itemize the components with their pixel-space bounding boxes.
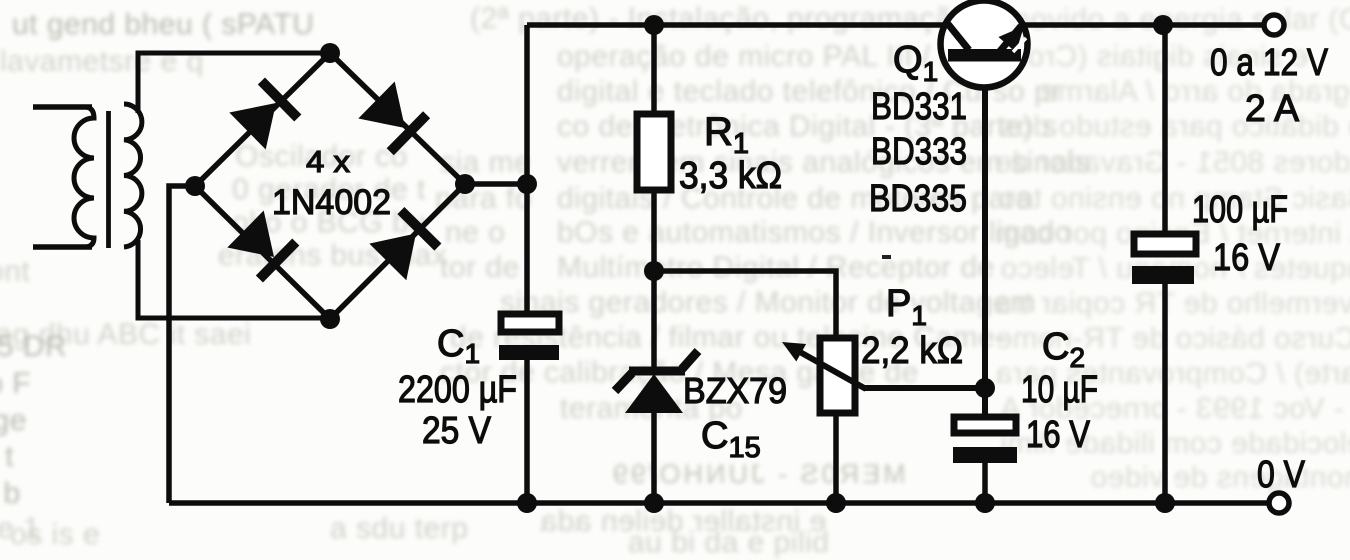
svg-text:25 V: 25 V bbox=[422, 410, 492, 452]
junction node C2 bottom bbox=[975, 493, 995, 513]
svg-text:16 V: 16 V bbox=[1026, 414, 1091, 456]
top rail left of Q1 bbox=[527, 22, 944, 28]
svg-text:Q1: Q1 bbox=[893, 39, 938, 87]
junction node 100uF top-rail bbox=[1153, 15, 1173, 35]
wire R1 bottom lead to zener node bbox=[651, 190, 657, 271]
svg-text:100 µF: 100 µF bbox=[1192, 189, 1288, 231]
wire zener cathode lead bbox=[651, 271, 657, 368]
wire P1 wiper to Q1 base node bbox=[864, 385, 985, 391]
svg-text:16 V: 16 V bbox=[1213, 237, 1281, 279]
junction node 100uF bottom bbox=[1155, 493, 1175, 513]
junction node C1 bottom bbox=[517, 493, 537, 513]
resistor R1 body bbox=[637, 114, 671, 190]
diode D2 bbox=[358, 82, 426, 152]
zener diode D5 BZX79 bbox=[615, 351, 698, 413]
capacitor C1 plates bbox=[499, 314, 559, 360]
wire 100uF bottom lead bbox=[1162, 284, 1168, 503]
junction node wiper/base bbox=[975, 378, 995, 398]
svg-text:R1: R1 bbox=[704, 110, 749, 160]
wire riser x527 top-rail to C1 bbox=[524, 25, 530, 314]
junction node bridge left bbox=[185, 176, 205, 196]
svg-text:0 a 12 V: 0 a 12 V bbox=[1210, 42, 1329, 84]
svg-text:P1: P1 bbox=[886, 283, 927, 331]
svg-text:1N4002: 1N4002 bbox=[272, 183, 391, 222]
svg-text:BD333: BD333 bbox=[871, 131, 967, 173]
svg-text:3,3 kΩ: 3,3 kΩ bbox=[679, 155, 782, 197]
wire bridge left node to bottom rail bbox=[169, 186, 195, 503]
wire Q1 base lead bbox=[982, 61, 988, 417]
terminal output 0V bbox=[1269, 493, 1289, 513]
top rail right of Q1 bbox=[1024, 22, 1264, 28]
junction node R1 top-rail bbox=[644, 15, 664, 35]
wire zener anode to bottom rail bbox=[651, 411, 657, 503]
svg-text:C2: C2 bbox=[1042, 326, 1085, 373]
junction node zener/R1/P1 bbox=[644, 261, 664, 281]
transformer T1 core bbox=[106, 111, 111, 248]
transformer T1 secondary winding bbox=[124, 104, 142, 247]
wire secondary top to bridge AC top bbox=[138, 53, 330, 113]
wire zener node to P1 top bbox=[654, 271, 836, 338]
diode D1 bbox=[229, 81, 297, 150]
svg-text:BD331: BD331 bbox=[871, 86, 967, 128]
svg-text:2 A: 2 A bbox=[1245, 88, 1300, 130]
wire C1 bottom lead bbox=[524, 360, 530, 503]
junction node bridge bottom bbox=[320, 309, 340, 329]
svg-text:2200 µF: 2200 µF bbox=[398, 369, 517, 411]
stray mark bbox=[882, 255, 891, 259]
bridge diamond edges bbox=[195, 53, 465, 319]
wire bridge right node to riser bbox=[465, 181, 527, 187]
svg-text:C15: C15 bbox=[701, 415, 761, 464]
svg-text:BD335: BD335 bbox=[869, 178, 967, 220]
svg-text:BZX79: BZX79 bbox=[683, 370, 787, 411]
terminal output positive bbox=[1264, 15, 1284, 35]
svg-text:0 V: 0 V bbox=[1257, 454, 1306, 496]
transformer T1 primary top stub bbox=[33, 104, 92, 110]
capacitor C2 plates bbox=[953, 417, 1017, 463]
wire C2 bottom lead bbox=[982, 463, 988, 503]
svg-text:4 x: 4 x bbox=[306, 144, 351, 179]
wire P1 bottom lead bbox=[833, 413, 839, 503]
diode D3 bbox=[227, 211, 295, 280]
transistor Q1 bbox=[941, 1, 1028, 88]
middle ghost column bbox=[470, 2, 995, 36]
wire R1 top lead bbox=[651, 25, 657, 114]
svg-text:2,2 kΩ: 2,2 kΩ bbox=[861, 330, 963, 372]
bottom rail bbox=[169, 500, 1269, 506]
wire secondary bottom to bridge AC bottom bbox=[138, 240, 330, 318]
svg-text:10 µF: 10 µF bbox=[1021, 369, 1098, 411]
svg-text:C1: C1 bbox=[437, 323, 480, 369]
junction node bridge right bbox=[455, 174, 475, 194]
right ghost column bbox=[1005, 3, 1350, 37]
diode D4 bbox=[369, 211, 438, 281]
background ghost text (page bleed-through) bbox=[0, 0, 1350, 1]
transformer T1 primary winding bbox=[74, 107, 94, 247]
junction node bridge top bbox=[320, 43, 340, 63]
potentiometer P1 wiper arrow bbox=[782, 342, 866, 389]
junction node riser corner bbox=[517, 174, 537, 194]
transformer T1 primary bottom stub bbox=[33, 244, 92, 250]
potentiometer P1 body bbox=[820, 338, 855, 413]
wire 100uF top lead bbox=[1162, 25, 1168, 234]
capacitor C3 100uF plates bbox=[1132, 234, 1196, 284]
junction node zener bottom bbox=[644, 493, 664, 513]
junction node P1 bottom bbox=[826, 493, 846, 513]
